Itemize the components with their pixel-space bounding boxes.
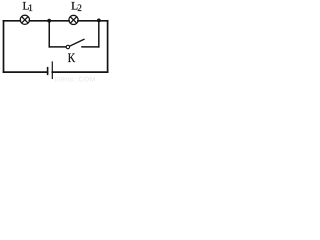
wire top: L1 to L2	[30, 20, 70, 22]
svg-text:ntenc. COM: ntenc. COM	[55, 76, 96, 82]
battery positive long plate	[51, 61, 53, 79]
wire branch: node A to switch pivot	[49, 46, 66, 48]
battery negative short plate	[47, 67, 49, 75]
wire top: left edge to L1	[4, 20, 21, 22]
wire bottom left	[4, 71, 48, 73]
wire branch: switch contact to node B	[82, 46, 99, 48]
lamp L2	[69, 15, 78, 24]
wire bottom right	[52, 71, 107, 73]
svg-text:K: K	[68, 51, 76, 65]
wire left edge	[3, 21, 5, 72]
wire branch: vertical to node B	[98, 22, 100, 47]
svg-text:2: 2	[77, 3, 82, 13]
wire right edge	[107, 21, 109, 72]
node A junction dot	[47, 19, 51, 23]
wire top: L2 to right edge	[78, 20, 108, 22]
svg-text:1: 1	[28, 4, 33, 14]
wire branch: vertical from node A	[48, 22, 50, 47]
lamp L1	[20, 15, 29, 24]
switch K pivot	[66, 45, 69, 48]
switch K blade	[70, 39, 84, 46]
node B junction dot	[97, 19, 101, 23]
